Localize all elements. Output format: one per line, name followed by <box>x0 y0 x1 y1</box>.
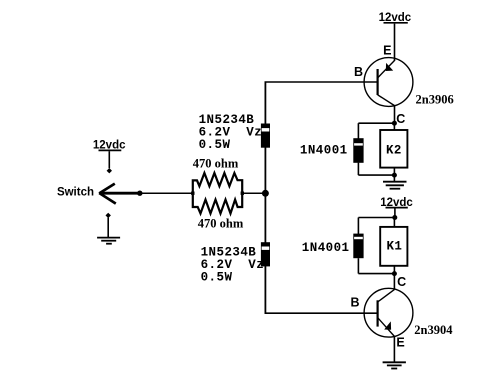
wire bus bottom to Q2 base <box>265 312 378 314</box>
ground (switch) <box>97 238 120 244</box>
power label 12vdc (switch supply) <box>93 140 126 152</box>
power label 12vdc (Q1 emitter supply) <box>379 12 412 24</box>
diode D4 1N4001 (across K1) <box>353 218 363 274</box>
svg-text:C: C <box>397 275 406 289</box>
ground (K2) <box>383 182 407 189</box>
svg-text:E: E <box>396 336 404 350</box>
switch S1 wiper arrow <box>99 184 142 204</box>
wire 12vdc to switch top contact <box>108 151 110 168</box>
zener diode D1 1N5234B (top) <box>261 124 270 148</box>
svg-text:2n3904: 2n3904 <box>414 323 453 337</box>
svg-text:Switch: Switch <box>57 186 94 198</box>
node K1 bottom / Q2 collector <box>392 271 397 276</box>
wire resistors to bus <box>242 192 265 194</box>
svg-text:470 ohm: 470 ohm <box>198 217 244 231</box>
resistor R2 470 ohm (bottom) <box>193 195 242 214</box>
resistor R1 470 ohm (top) <box>193 173 242 192</box>
wire bottom contact to ground <box>107 218 109 238</box>
svg-text:K2: K2 <box>386 143 402 157</box>
svg-text:K1: K1 <box>386 240 402 254</box>
wire 12vdc to Q1 emitter <box>394 24 396 61</box>
node switch bottom contact <box>106 213 111 218</box>
node resistor network left junction <box>191 192 194 195</box>
svg-text:B: B <box>350 296 359 310</box>
wire K1 to Q2 collector <box>393 274 395 290</box>
wire wiper to resistor network <box>140 192 193 194</box>
label zener D1: 1N5234B 6.2V Vz 0.5W <box>199 113 263 152</box>
wire bus top to Q1 base <box>265 81 378 83</box>
node K1 top <box>392 215 397 220</box>
wire K2 top rail <box>358 122 394 124</box>
zener diode D2 1N5234B (bottom) <box>261 242 270 266</box>
transistor Q2 2n3904 <box>364 288 413 362</box>
svg-text:0.5W: 0.5W <box>201 271 233 285</box>
svg-text:1N4001: 1N4001 <box>302 241 350 255</box>
svg-text:C: C <box>396 112 405 126</box>
wire K1 top rail <box>358 218 394 228</box>
transistor Q1 2n3906 <box>364 58 413 124</box>
ground (Q2 emitter) <box>383 362 406 368</box>
svg-text:1N4001: 1N4001 <box>300 144 348 158</box>
relay K2 <box>380 130 407 168</box>
node switch top contact <box>107 168 112 173</box>
svg-text:470 ohm: 470 ohm <box>193 157 239 171</box>
diode D3 1N4001 (across K2) <box>353 123 363 175</box>
node bus junction <box>262 190 269 197</box>
power label 12vdc (K1 supply) <box>380 197 413 209</box>
node K2 bottom <box>392 173 397 178</box>
label zener D2: 1N5234B 6.2V Vz 0.5W <box>201 246 265 285</box>
wire K2 top stub <box>393 123 395 130</box>
wire 12vdc to K1 top <box>394 208 396 217</box>
svg-text:0.5W: 0.5W <box>199 138 231 152</box>
wire vertical bus <box>264 82 266 313</box>
wire K2 bottom rail <box>358 168 394 176</box>
wire K1 bottom rail <box>358 266 394 274</box>
node Q1 collector / K2 top <box>392 121 397 126</box>
node resistor network right junction <box>241 192 244 195</box>
wire K2 to ground <box>393 175 395 181</box>
svg-text:E: E <box>383 44 391 58</box>
svg-text:B: B <box>354 65 363 79</box>
relay K1 <box>380 227 407 266</box>
svg-text:2n3906: 2n3906 <box>416 93 454 107</box>
